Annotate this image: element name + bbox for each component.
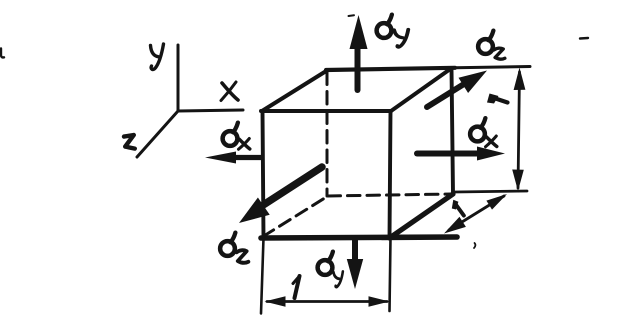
stray mark top-left corner [1,49,4,58]
stress arrow sigma_x right [417,147,505,161]
cube top-left depth edge [262,71,327,112]
stress arrow sigma_y bottom [347,239,363,289]
width dimension line (bottom, horizontal) [265,296,390,307]
depth dimension line (diagonal) [444,194,507,234]
height dimension label 1 (rotated) [487,94,508,104]
axis label z [124,135,135,149]
axis label y [151,44,164,69]
cube hidden back bottom edge (dashed) [328,194,451,196]
depth dimension label 1 (rotated) [452,200,464,216]
x axis [178,110,243,111]
cube front bottom edge (extended right as extension line) [261,237,457,238]
label sigma_z front [220,233,248,263]
cube hidden back-left vertical edge (dashed) [326,72,329,196]
extension line lower right [454,191,527,192]
stress arrow sigma_z front (down-left) [239,167,322,223]
height dimension line (right, vertical) [512,68,525,192]
stress arrow sigma_x left [205,152,261,164]
stress arrow sigma_y top [350,15,368,90]
cube front right edge [390,111,391,238]
extension line bottom-left [261,238,264,314]
cube front top edge [261,109,391,113]
label sigma_x right [470,118,497,147]
cube bottom-right depth edge [390,194,454,238]
cube top-right depth edge [391,69,451,112]
label sigma_y top [377,15,409,48]
label sigma_y bottom [318,252,343,287]
label sigma_z back [478,31,505,60]
stray comma mark right-bottom [474,243,475,248]
extension line bottom-right [390,238,391,311]
z axis [137,111,178,157]
width dimension label 1 [293,276,300,298]
y axis [177,45,180,111]
cube back right vertical edge [452,69,454,194]
stray dash near sigma-y arrow tip [349,14,355,17]
cube back top edge (extended right as extension line) [326,68,455,70]
cube hidden bottom-left depth edge (dashed) [263,196,328,237]
stress arrow sigma_z back (up-right) [427,71,487,108]
stray dash top-right [580,37,588,40]
label sigma_x left [223,123,250,150]
cube front left edge [263,111,264,238]
axis label x [221,82,238,101]
